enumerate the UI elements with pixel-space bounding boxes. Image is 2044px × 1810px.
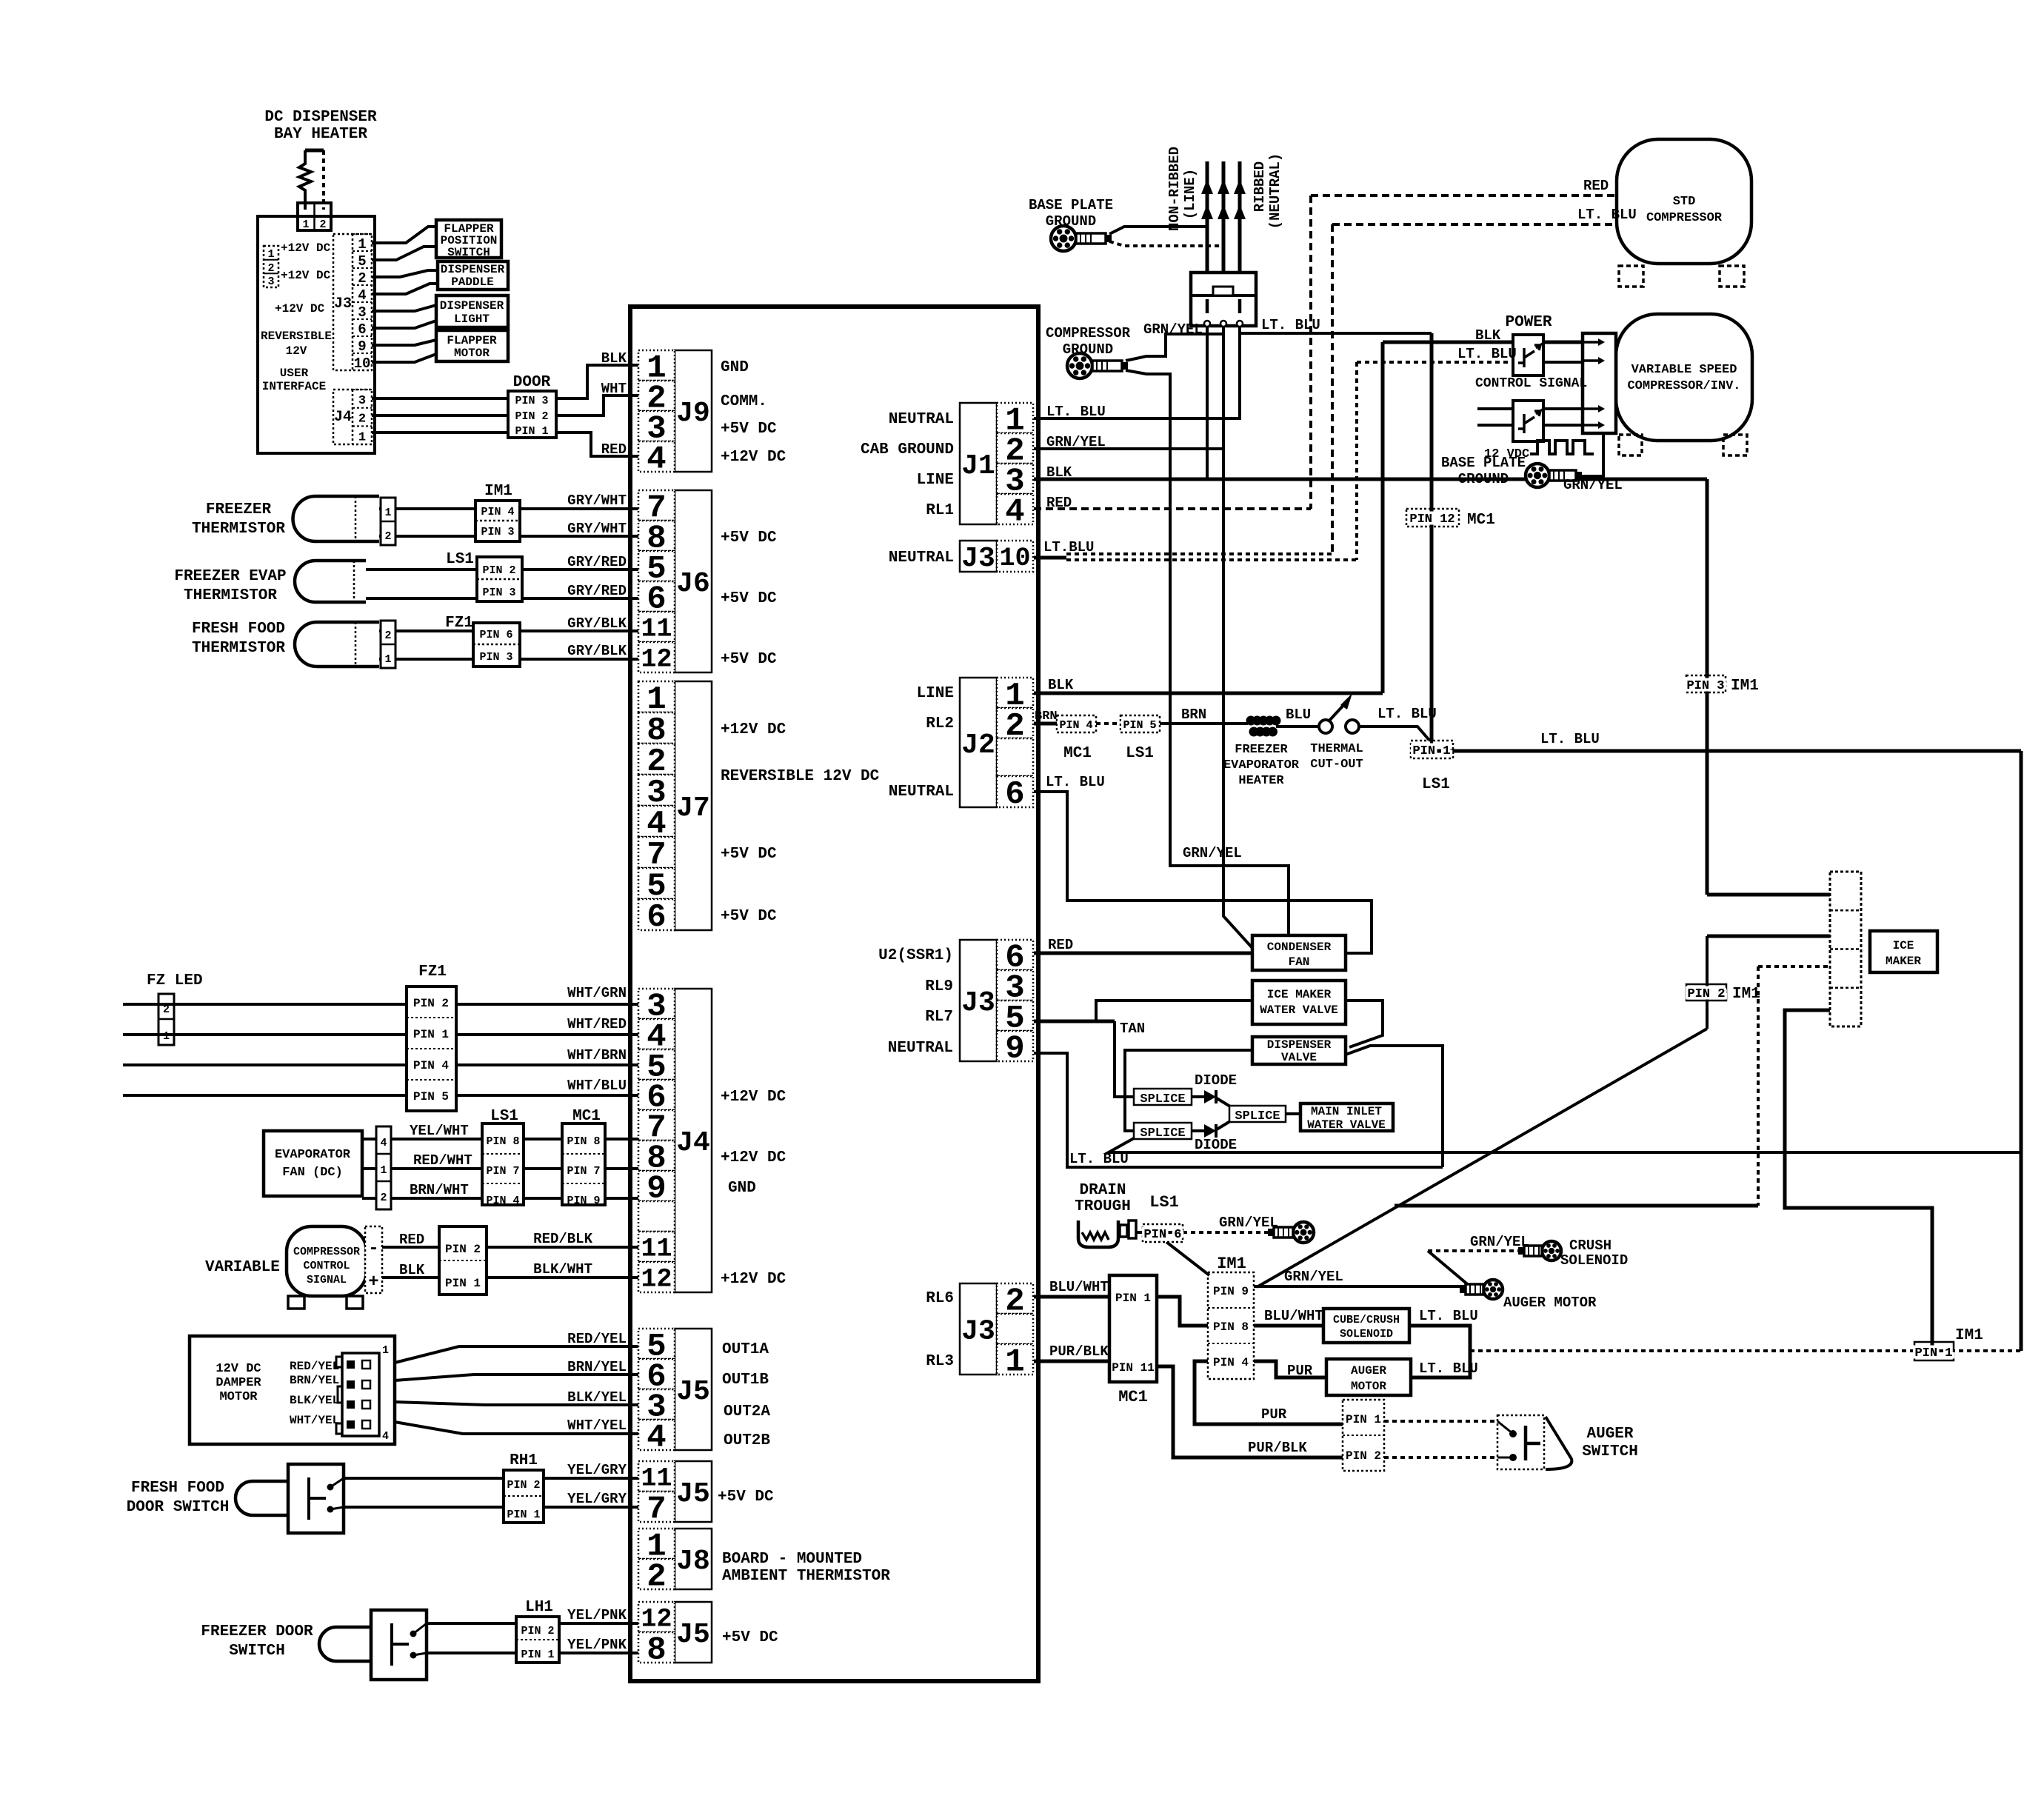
wire BRN/YEL damper motor to J5-6 — [395, 1375, 638, 1380]
svg-text:POWER: POWER — [1505, 314, 1552, 331]
wire LT. BLU LS1 PIN1 to right bus — [1453, 749, 2021, 753]
wire GRN/YEL dotted into ice maker — [1758, 965, 1830, 968]
svg-text:DOOR SWITCH: DOOR SWITCH — [127, 1499, 230, 1516]
svg-text:PIN 3: PIN 3 — [1686, 679, 1724, 693]
svg-text:PIN 4: PIN 4 — [1059, 719, 1092, 732]
fresh food thermistor bulb — [295, 622, 379, 667]
svg-text:REVERSIBLE 12V DC: REVERSIBLE 12V DC — [721, 768, 880, 785]
svg-text:MOTOR: MOTOR — [1351, 1380, 1386, 1393]
wire dotted MC1 PIN4 to LS1 PIN5 — [1096, 722, 1120, 725]
wire auger switch PIN1 to switch — [1384, 1420, 1497, 1423]
wire J4UI-3 to DOOR PIN3 — [372, 397, 508, 400]
svg-text:PIN 4: PIN 4 — [486, 1195, 519, 1207]
freezer evap thermistor bulb — [295, 561, 366, 602]
svg-text:WHT/RED: WHT/RED — [567, 1016, 627, 1032]
wire GRN/YEL inverter to base plate ground — [1582, 433, 1603, 476]
svg-text:2: 2 — [319, 218, 326, 231]
svg-text:LT. BLU: LT. BLU — [1046, 404, 1106, 420]
svg-text:HEATER: HEATER — [1238, 774, 1284, 788]
wire RED compressor control signal — [382, 1246, 439, 1249]
svg-text:WHT/YEL: WHT/YEL — [290, 1414, 339, 1427]
svg-text:PIN 2: PIN 2 — [445, 1243, 481, 1256]
svg-text:BLK/WHT: BLK/WHT — [533, 1261, 592, 1278]
wire GRN/YEL dotted vertical to ice maker cell3 — [1757, 966, 1760, 1206]
compressor control PIN2/PIN1 box — [439, 1226, 487, 1295]
svg-text:THERMISTOR: THERMISTOR — [184, 587, 277, 604]
wire PIN3 IM1 to ice maker cell1 — [1707, 893, 1830, 897]
svg-text:USER: USER — [280, 367, 309, 380]
J4 user interface connector — [333, 390, 372, 444]
svg-text:FREEZER EVAP: FREEZER EVAP — [174, 568, 286, 585]
wire WHT/GRN FZ LED to J4-3 — [123, 1003, 638, 1006]
svg-text:DIODE: DIODE — [1195, 1072, 1237, 1089]
wire fresh food door switch to RH1 PIN2 — [344, 1477, 504, 1480]
svg-text:GND: GND — [728, 1180, 756, 1197]
wire LT. BLU J2-6 to condenser fan — [1034, 792, 1372, 953]
heater connector 2x2 — [298, 203, 331, 230]
wire LT. BLU neutral to MC1 PIN12 vertical — [1240, 332, 1432, 335]
svg-text:LT. BLU: LT. BLU — [1377, 706, 1437, 722]
svg-text:+5V DC: +5V DC — [721, 908, 777, 925]
svg-text:PIN 7: PIN 7 — [486, 1165, 519, 1178]
wire control signal to inverter upper — [1543, 407, 1583, 410]
wire BLK branch up to plug left prong — [1206, 327, 1209, 479]
splice box upper — [1134, 1089, 1192, 1105]
svg-text:LT. BLU: LT. BLU — [1046, 774, 1105, 790]
svg-text:MC1: MC1 — [1063, 745, 1092, 762]
svg-text:WHT/BRN: WHT/BRN — [567, 1047, 627, 1063]
svg-text:PIN 1: PIN 1 — [1412, 744, 1450, 758]
wire LT. BLU J3-10 to inverter power branch — [1066, 558, 1357, 561]
wire DC dispenser bay heater lead with resistor — [305, 149, 324, 153]
IM1 PIN 1 tag far right — [1914, 1342, 1954, 1360]
wire base plate ground to cord 2 — [1109, 241, 1223, 246]
svg-text:NEUTRAL: NEUTRAL — [888, 1040, 953, 1057]
svg-text:DOOR: DOOR — [513, 374, 551, 391]
svg-text:PIN 8: PIN 8 — [1213, 1320, 1249, 1334]
svg-text:IM1: IM1 — [1217, 1255, 1246, 1273]
svg-text:PIN 9: PIN 9 — [567, 1195, 600, 1207]
svg-text:DAMPER: DAMPER — [216, 1376, 261, 1390]
svg-text:MC1: MC1 — [572, 1108, 601, 1125]
svg-text:FRESH FOOD: FRESH FOOD — [131, 1480, 224, 1497]
svg-text:PIN 4: PIN 4 — [1213, 1356, 1249, 1369]
svg-text:2: 2 — [384, 530, 391, 543]
svg-text:GRN/YEL: GRN/YEL — [1143, 321, 1203, 338]
wire BLU heater to thermal cut-out — [1276, 725, 1319, 728]
svg-text:2: 2 — [380, 1192, 387, 1204]
svg-text:WHT/BLU: WHT/BLU — [567, 1078, 627, 1094]
svg-text:COMPRESSOR: COMPRESSOR — [1646, 211, 1723, 225]
wire YEL/PNK LH1 to J5-12 — [559, 1622, 638, 1625]
svg-text:GRY/WHT: GRY/WHT — [567, 492, 627, 509]
svg-text:BLK/YEL: BLK/YEL — [290, 1394, 339, 1407]
svg-text:AUGER: AUGER — [1586, 1426, 1633, 1443]
wire LT. BLU dashed std compressor neutral — [1332, 223, 1617, 226]
wire control signal to inverter lower — [1543, 424, 1583, 427]
cube/crush solenoid box — [1323, 1309, 1409, 1343]
wire BRN J2-2 to MC1 PIN4 — [1034, 722, 1057, 726]
svg-text:1: 1 — [380, 1164, 387, 1177]
svg-text:1: 1 — [267, 248, 274, 261]
svg-text:RED: RED — [1583, 178, 1609, 194]
svg-text:3: 3 — [358, 304, 366, 321]
svg-text:BRN/YEL: BRN/YEL — [567, 1359, 627, 1375]
svg-text:-: - — [368, 1239, 378, 1259]
svg-text:2: 2 — [384, 630, 391, 642]
svg-text:FLAPPER: FLAPPER — [447, 334, 497, 347]
wire dispenser valve right run — [1346, 1046, 1443, 1167]
svg-text:BLK/YEL: BLK/YEL — [567, 1389, 627, 1406]
wire GRY/WHT freezer thermistor to J6-7 — [379, 507, 638, 510]
svg-text:LT. BLU: LT. BLU — [1261, 317, 1320, 333]
connector J3 auger group — [960, 1283, 997, 1375]
svg-text:PADDLE: PADDLE — [451, 275, 494, 289]
svg-text:+12V DC: +12V DC — [721, 721, 786, 738]
svg-text:PIN 3: PIN 3 — [479, 651, 512, 664]
svg-text:FZ1: FZ1 — [418, 964, 447, 981]
wire GRN/YEL J1-2 cab ground to plug center prong — [1034, 327, 1223, 449]
svg-text:1: 1 — [382, 1344, 389, 1357]
svg-text:RED/BLK: RED/BLK — [533, 1231, 592, 1247]
wire freezer door switch to LH1 PIN1 — [427, 1652, 516, 1654]
wire GRN/YEL bus horizontal — [1395, 1204, 1758, 1208]
wire BRN LS1 PIN5 to freezer evaporator heater — [1160, 722, 1248, 725]
wire RED J3-6 to condenser fan — [1034, 952, 1252, 955]
svg-text:GROUND: GROUND — [1063, 341, 1113, 358]
wire LT. BLU vertical to power relay — [1355, 362, 1358, 560]
svg-text:NON-RIBBED: NON-RIBBED — [1166, 147, 1183, 231]
svg-text:RIBBED: RIBBED — [1252, 161, 1268, 212]
std compressor body — [1617, 139, 1751, 264]
svg-text:GRN/YEL: GRN/YEL — [1563, 477, 1623, 493]
svg-text:J7: J7 — [676, 792, 710, 824]
svg-text:RL9: RL9 — [925, 978, 953, 995]
wire power cord line 3 — [1238, 161, 1242, 273]
power relay box — [1513, 335, 1543, 375]
svg-text:GROUND: GROUND — [1046, 213, 1096, 230]
svg-text:CUBE/CRUSH: CUBE/CRUSH — [1333, 1314, 1400, 1326]
thermal cut-out blade — [1329, 702, 1346, 721]
svg-text:6: 6 — [647, 899, 666, 936]
wire LT. BLU right bus vertical — [2020, 751, 2023, 1351]
wire J3UI-6 to dispenser light — [372, 321, 436, 328]
J3 user interface connector — [333, 234, 372, 370]
svg-text:IM1: IM1 — [1955, 1327, 1983, 1344]
svg-text:RED/YEL: RED/YEL — [567, 1331, 627, 1347]
variable compressor feet — [1619, 435, 1642, 455]
dispenser paddle box — [438, 261, 508, 290]
wire fresh food door switch to RH1 PIN1 — [344, 1506, 504, 1509]
svg-text:J5: J5 — [676, 1376, 710, 1408]
svg-text:BLU: BLU — [1286, 707, 1311, 723]
svg-text:FZ LED: FZ LED — [147, 972, 203, 989]
wire GRN/YEL IM1 PIN9 to auger motor ground lug — [1254, 1285, 1469, 1288]
wire RED vertical to std compressor — [1309, 196, 1312, 509]
svg-text:LS1: LS1 — [1422, 776, 1450, 793]
svg-text:2: 2 — [647, 1559, 666, 1596]
svg-text:+12V DC: +12V DC — [721, 1271, 786, 1288]
svg-text:LH1: LH1 — [525, 1599, 553, 1616]
svg-text:PIN 7: PIN 7 — [567, 1165, 600, 1178]
svg-text:BRN: BRN — [1035, 709, 1058, 724]
svg-text:PIN 2: PIN 2 — [1687, 987, 1725, 1001]
wire splice3 to main inlet water valve — [1286, 1112, 1300, 1115]
svg-text:SWITCH: SWITCH — [1582, 1443, 1638, 1460]
svg-text:PIN 8: PIN 8 — [567, 1135, 600, 1148]
svg-text:PIN 11: PIN 11 — [1112, 1361, 1155, 1375]
svg-text:OUT1A: OUT1A — [722, 1341, 769, 1358]
LS1 thermistor connector — [477, 557, 522, 601]
svg-text:AUGER MOTOR: AUGER MOTOR — [1503, 1295, 1597, 1311]
svg-text:2: 2 — [358, 270, 366, 287]
svg-text:J3: J3 — [961, 543, 995, 575]
svg-text:OUT1B: OUT1B — [722, 1372, 769, 1389]
svg-text:BASE PLATE: BASE PLATE — [1441, 455, 1526, 471]
wire PIN2 IM1 vertical — [1706, 936, 1709, 1029]
svg-text:LS1: LS1 — [446, 551, 474, 568]
svg-text:+12V DC: +12V DC — [275, 302, 325, 315]
wire freezer door switch to LH1 PIN2 — [427, 1622, 516, 1625]
svg-text:PIN 6: PIN 6 — [479, 629, 512, 641]
svg-text:BLK: BLK — [1046, 464, 1072, 481]
svg-text:U2(SSR1): U2(SSR1) — [878, 947, 953, 964]
svg-text:RL3: RL3 — [926, 1353, 954, 1370]
compressor ground lug — [1067, 353, 1092, 378]
svg-text:4: 4 — [382, 1430, 389, 1443]
wire WHT door to J9-2 — [556, 395, 638, 415]
svg-text:+5V DC: +5V DC — [722, 1629, 778, 1646]
wire J3UI-1 to flapper position switch — [372, 227, 436, 243]
svg-text:GRN/YEL: GRN/YEL — [1470, 1234, 1529, 1250]
evaporator fan box — [264, 1131, 362, 1196]
svg-text:LT. BLU: LT. BLU — [1419, 1308, 1478, 1324]
svg-text:11: 11 — [641, 615, 672, 644]
svg-text:1: 1 — [358, 430, 366, 444]
variable compressor control signal body — [287, 1226, 367, 1296]
svg-text:YEL/PNK: YEL/PNK — [567, 1637, 627, 1653]
svg-text:PIN 2: PIN 2 — [413, 997, 449, 1010]
condenser fan box — [1252, 935, 1346, 970]
svg-text:PUR/BLK: PUR/BLK — [1248, 1440, 1307, 1456]
svg-text:3: 3 — [267, 275, 274, 288]
svg-text:PIN 8: PIN 8 — [486, 1135, 519, 1148]
connector J9 — [675, 350, 712, 472]
svg-text:THERMAL: THERMAL — [1310, 742, 1363, 756]
wire dispenser valve to lower splice — [1125, 1050, 1252, 1131]
wire power cord line 1 — [1206, 161, 1209, 273]
svg-text:SPLICE: SPLICE — [1140, 1126, 1185, 1141]
wire GRY/BLK fresh food thermistor to J6-11 — [379, 630, 638, 632]
svg-text:10: 10 — [354, 355, 371, 372]
svg-text:+12V DC: +12V DC — [721, 1149, 786, 1166]
connector J3 valves group — [960, 940, 997, 1061]
main control board outline — [630, 307, 1038, 1681]
wire BLK/YEL damper motor to J5-3 — [395, 1402, 638, 1405]
svg-text:VALVE: VALVE — [1281, 1051, 1317, 1064]
wire diode lower — [1192, 1129, 1204, 1132]
wire BLK/WHT to J4-12 — [487, 1276, 638, 1279]
svg-text:WHT: WHT — [601, 381, 627, 397]
wire BLK power relay to inverter — [1543, 341, 1583, 344]
wire J3-10 neutral stub — [1034, 556, 1066, 560]
svg-text:AMBIENT THERMISTOR: AMBIENT THERMISTOR — [722, 1568, 890, 1585]
svg-text:ICE: ICE — [1893, 939, 1914, 952]
svg-text:+12V DC: +12V DC — [281, 241, 331, 255]
svg-text:PIN 1: PIN 1 — [507, 1509, 540, 1521]
svg-text:6: 6 — [1005, 776, 1024, 813]
svg-text:WATER VALVE: WATER VALVE — [1260, 1003, 1338, 1017]
wire BRN/WHT evaporator fan to J4-9 — [362, 1197, 638, 1200]
svg-text:PIN 2: PIN 2 — [507, 1479, 540, 1492]
wire LT. BLU dotted into power box — [1357, 361, 1513, 364]
svg-text:TAN: TAN — [1120, 1021, 1145, 1037]
svg-text:FREEZER DOOR: FREEZER DOOR — [201, 1623, 313, 1640]
ice maker box — [1870, 931, 1937, 972]
svg-text:CONTROL: CONTROL — [303, 1260, 350, 1272]
dispenser light box — [436, 295, 508, 327]
svg-text:GROUND: GROUND — [1458, 471, 1509, 487]
svg-text:YEL/WHT: YEL/WHT — [410, 1123, 469, 1139]
wire heater return lead — [322, 150, 325, 210]
svg-text:COMPRESSOR: COMPRESSOR — [1046, 325, 1131, 341]
svg-text:PIN 4: PIN 4 — [413, 1059, 449, 1072]
svg-text:OUT2B: OUT2B — [724, 1432, 770, 1449]
connector J2 — [960, 678, 997, 807]
FZ LED connector — [158, 994, 174, 1045]
wire LT. BLU J1-1 neutral to plug ribbed prong — [1034, 327, 1240, 418]
wire base plate ground to cord — [1109, 227, 1207, 234]
wire YEL/WHT evaporator fan to J4-7 — [362, 1138, 638, 1141]
drain trough icon — [1078, 1220, 1118, 1247]
wire GRY/RED freezer evap thermistor to J6-6 — [366, 597, 638, 600]
svg-text:BLK: BLK — [399, 1262, 425, 1278]
svg-text:MOTOR: MOTOR — [454, 347, 490, 360]
svg-text:12V DC: 12V DC — [216, 1362, 261, 1376]
wire LT. BLU splice return to right bus — [1109, 1138, 2021, 1152]
wire J3UI-10 to flapper motor — [372, 354, 436, 362]
fresh food door switch box — [288, 1464, 344, 1533]
wire BLU/WHT IM1 PIN8 to cube/crush solenoid — [1254, 1324, 1323, 1328]
12 VDC square wave symbol — [1530, 441, 1594, 454]
svg-text:3: 3 — [358, 394, 366, 408]
wire PIN3 IM1 vertical — [1706, 479, 1709, 895]
svg-text:STD: STD — [1673, 195, 1696, 209]
svg-text:RED: RED — [1048, 937, 1073, 953]
wire BLK door switch to J9-1 — [556, 365, 638, 398]
wire J3UI-5 to flapper position switch — [372, 247, 436, 260]
wire compressor ground to plug ground — [1126, 334, 1223, 361]
drain trough ground lug — [1293, 1222, 1314, 1243]
IM1 thermistor connector — [475, 501, 520, 541]
svg-text:12: 12 — [641, 645, 672, 675]
arrowheads on power cord — [1218, 179, 1229, 194]
svg-text:BRN/YEL: BRN/YEL — [290, 1374, 339, 1387]
PIN 3 IM1 tag — [1686, 675, 1726, 692]
auger switch connector PIN1 PIN2 — [1343, 1400, 1384, 1471]
wire PIN2 IM1 to ice maker cell2 — [1707, 935, 1830, 938]
wire ice maker water valve branch — [1096, 1001, 1252, 1021]
svg-text:GRN/YEL: GRN/YEL — [1046, 434, 1106, 450]
svg-text:WATER VALVE: WATER VALVE — [1307, 1118, 1386, 1132]
svg-text:RED: RED — [601, 441, 627, 458]
svg-text:CUT-OUT: CUT-OUT — [1310, 758, 1363, 772]
inverter connector box — [1583, 333, 1616, 433]
svg-text:BRN: BRN — [1181, 707, 1206, 723]
svg-text:RL7: RL7 — [925, 1009, 953, 1026]
svg-text:BLU/WHT: BLU/WHT — [1264, 1308, 1323, 1324]
FZ1 thermistor connector — [473, 623, 520, 667]
svg-text:THERMISTOR: THERMISTOR — [192, 521, 285, 538]
svg-text:J4: J4 — [676, 1127, 710, 1159]
connector J3 pin 10 — [960, 541, 997, 572]
connector J7 — [675, 681, 712, 930]
svg-text:4: 4 — [1005, 494, 1024, 531]
svg-text:12V: 12V — [286, 344, 307, 358]
svg-text:GRY/RED: GRY/RED — [567, 583, 627, 599]
svg-text:VARIABLE: VARIABLE — [205, 1259, 280, 1276]
svg-text:FREEZER: FREEZER — [206, 501, 272, 518]
splice box lower — [1134, 1123, 1192, 1139]
wire J3UI-4 to dispenser paddle — [372, 284, 438, 294]
svg-text:12: 12 — [641, 1605, 672, 1634]
12V DC damper motor box — [190, 1336, 395, 1444]
wire PUR IM1 PIN4 to auger switch PIN1 — [1195, 1361, 1343, 1424]
svg-text:RED: RED — [399, 1232, 424, 1248]
wire GRN/YEL compressor ground down to condenser fan — [1126, 370, 1289, 935]
svg-text:CONTROL SIGNAL: CONTROL SIGNAL — [1475, 376, 1587, 391]
svg-text:+: + — [368, 1272, 378, 1292]
freezer evaporator heater coil — [1246, 716, 1256, 726]
connector J6 — [675, 490, 712, 672]
svg-text:LT. BLU: LT. BLU — [1419, 1360, 1478, 1377]
wire GRN/YEL crush solenoid branch diagonal — [1428, 1251, 1470, 1286]
svg-text:SIGNAL: SIGNAL — [307, 1274, 347, 1286]
svg-text:PIN 3: PIN 3 — [482, 587, 515, 599]
wire PUR/BLK MC1 PIN11 to auger switch PIN2 — [1157, 1366, 1343, 1457]
wire RED dashed to std compressor — [1311, 194, 1617, 197]
wire LT. BLU bus to IM1 PIN1 — [1470, 1349, 2021, 1352]
wire YEL/PNK LH1 to J5-8 — [559, 1652, 638, 1654]
UI 3-pin connector — [264, 246, 278, 287]
svg-text:DIODE: DIODE — [1195, 1137, 1237, 1153]
LS1 fan connector — [482, 1123, 524, 1205]
svg-text:LT. BLU: LT. BLU — [1457, 346, 1517, 362]
svg-text:J3: J3 — [961, 1316, 995, 1348]
svg-text:COMPRESSOR: COMPRESSOR — [293, 1246, 360, 1258]
svg-text:EVAPORATOR: EVAPORATOR — [1223, 758, 1300, 772]
svg-text:J2: J2 — [961, 729, 995, 761]
wire BLK J2-1 line to inverter power — [1034, 692, 1383, 695]
svg-text:+5V DC: +5V DC — [721, 530, 777, 547]
power plug box — [1191, 273, 1256, 326]
svg-text:WHT/YEL: WHT/YEL — [567, 1417, 627, 1434]
svg-text:GRY/RED: GRY/RED — [567, 554, 627, 570]
svg-text:2: 2 — [358, 413, 366, 427]
svg-text:DISPENSER: DISPENSER — [440, 299, 504, 313]
wire ice maker valve right to dispenser valve right — [1346, 1001, 1383, 1047]
std compressor feet — [1619, 266, 1643, 287]
svg-text:J5: J5 — [676, 1478, 710, 1510]
svg-text:PIN 2: PIN 2 — [521, 1625, 554, 1637]
connector J1 — [960, 403, 997, 524]
wire RED/BLK to J4-11 — [487, 1246, 638, 1249]
svg-text:8: 8 — [647, 1632, 666, 1669]
svg-text:SOLENOID: SOLENOID — [1560, 1252, 1628, 1269]
auger motor ground lug — [1483, 1280, 1503, 1299]
svg-text:GRY/WHT: GRY/WHT — [567, 521, 627, 537]
wire GRY/RED freezer evap thermistor to J6-5 — [366, 568, 638, 571]
